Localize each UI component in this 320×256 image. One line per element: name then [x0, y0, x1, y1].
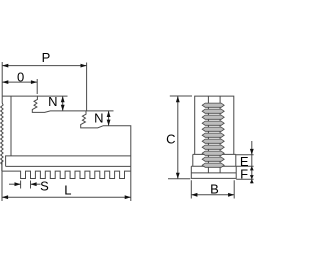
- svg-text:C: C: [166, 131, 175, 146]
- svg-text:F: F: [240, 167, 248, 182]
- svg-text:P: P: [42, 50, 51, 65]
- svg-text:N: N: [48, 94, 57, 109]
- svg-text:S: S: [40, 179, 49, 194]
- svg-text:B: B: [210, 182, 219, 197]
- svg-text:L: L: [64, 183, 71, 198]
- svg-text:N: N: [94, 111, 103, 126]
- svg-text:0: 0: [17, 69, 24, 84]
